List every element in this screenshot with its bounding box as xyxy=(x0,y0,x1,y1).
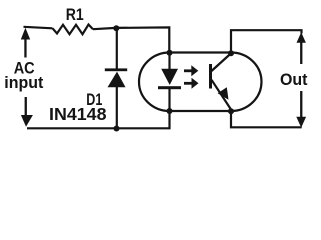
LED cathode bar xyxy=(158,86,181,89)
junction dot LED bottom xyxy=(167,108,173,114)
Out arrow up xyxy=(297,32,306,64)
phototransistor emitter xyxy=(212,80,232,110)
junction dot diode bottom xyxy=(114,126,120,132)
wire emitter to bottom-right rail xyxy=(231,111,302,127)
light arrow lower xyxy=(184,78,199,89)
junction dot emitter bottom xyxy=(228,108,234,114)
svg-text:input: input xyxy=(4,73,43,92)
wire bottom-left rail xyxy=(27,127,170,129)
junction dot LED top xyxy=(167,50,173,56)
wire top-left rail xyxy=(24,27,53,29)
wire LED cathode to bottom rail xyxy=(168,111,170,129)
wire top rail to LED drop xyxy=(93,27,169,52)
light arrow upper xyxy=(184,65,198,76)
wire diode D1 top lead xyxy=(116,28,118,69)
resistor R1 xyxy=(53,25,94,35)
AC input arrow down xyxy=(21,97,33,127)
junction dot diode top xyxy=(113,25,119,31)
svg-text:R1: R1 xyxy=(66,5,84,24)
diode D1 triangle xyxy=(108,72,126,88)
wire diode D1 bottom lead xyxy=(116,87,118,129)
phototransistor collector xyxy=(212,54,231,72)
svg-text:Out: Out xyxy=(280,70,308,89)
AC input arrow up xyxy=(21,28,30,58)
phototransistor emitter arrowhead xyxy=(218,87,229,100)
junction dot collector top xyxy=(228,50,234,56)
Out arrow down xyxy=(296,91,306,128)
LED triangle xyxy=(161,69,178,85)
phototransistor base bar xyxy=(209,64,212,89)
optocoupler body (stadium outline) xyxy=(139,53,262,112)
LED cathode wire xyxy=(168,89,170,111)
svg-text:IN4148: IN4148 xyxy=(49,104,107,124)
LED anode wire xyxy=(168,53,170,70)
diode D1 cathode bar xyxy=(105,68,127,71)
wire collector to top-right rail xyxy=(231,30,302,53)
